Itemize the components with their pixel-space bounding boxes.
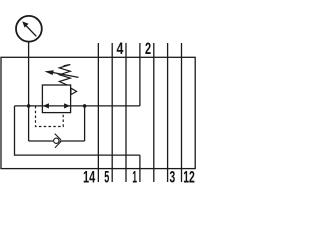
wire: bypass bottom right segment — [60, 140, 85, 142]
svg-text:1: 1 — [132, 169, 137, 187]
adjustment arrow head — [45, 70, 54, 75]
wire: bypass left drop — [28, 106, 30, 141]
gauge needle — [26, 26, 36, 37]
check valve V1 ball — [54, 138, 59, 143]
wire: supply loop left and bottom — [15, 106, 140, 155]
node: junction right — [83, 104, 87, 108]
svg-text:2: 2 — [145, 40, 151, 58]
port line 12 — [181, 43, 183, 182]
wire: gauge stem — [28, 41, 30, 106]
port line 5 — [111, 43, 113, 182]
adjustment arrow shaft — [52, 72, 79, 77]
pilot line (dashed) — [36, 106, 64, 127]
check valve V1 seat — [55, 134, 61, 148]
port line 1 upper segment — [139, 43, 141, 106]
svg-text:14: 14 — [83, 169, 95, 187]
regulator flow arrow left — [43, 103, 49, 108]
port line 3 — [167, 43, 169, 182]
wire: bypass bottom left segment — [29, 140, 54, 142]
port line 4 — [125, 43, 127, 182]
wire: regulator flow line — [15, 105, 140, 107]
vent triangle — [71, 88, 77, 94]
node: junction left — [27, 104, 31, 108]
port line 2 — [153, 43, 155, 182]
svg-text:5: 5 — [104, 169, 109, 187]
regulator spring — [59, 65, 70, 85]
regulator R1 body — [42, 85, 70, 113]
manifold block outline — [1, 57, 195, 168]
regulator flow arrow right — [64, 103, 70, 108]
svg-text:4: 4 — [117, 40, 124, 58]
port line 1 lower segment — [139, 155, 141, 182]
wire: bypass right drop — [84, 106, 86, 141]
port line 14 — [97, 43, 99, 182]
pressure gauge G1 — [16, 16, 42, 42]
svg-text:12: 12 — [183, 169, 195, 187]
svg-text:3: 3 — [170, 169, 176, 187]
